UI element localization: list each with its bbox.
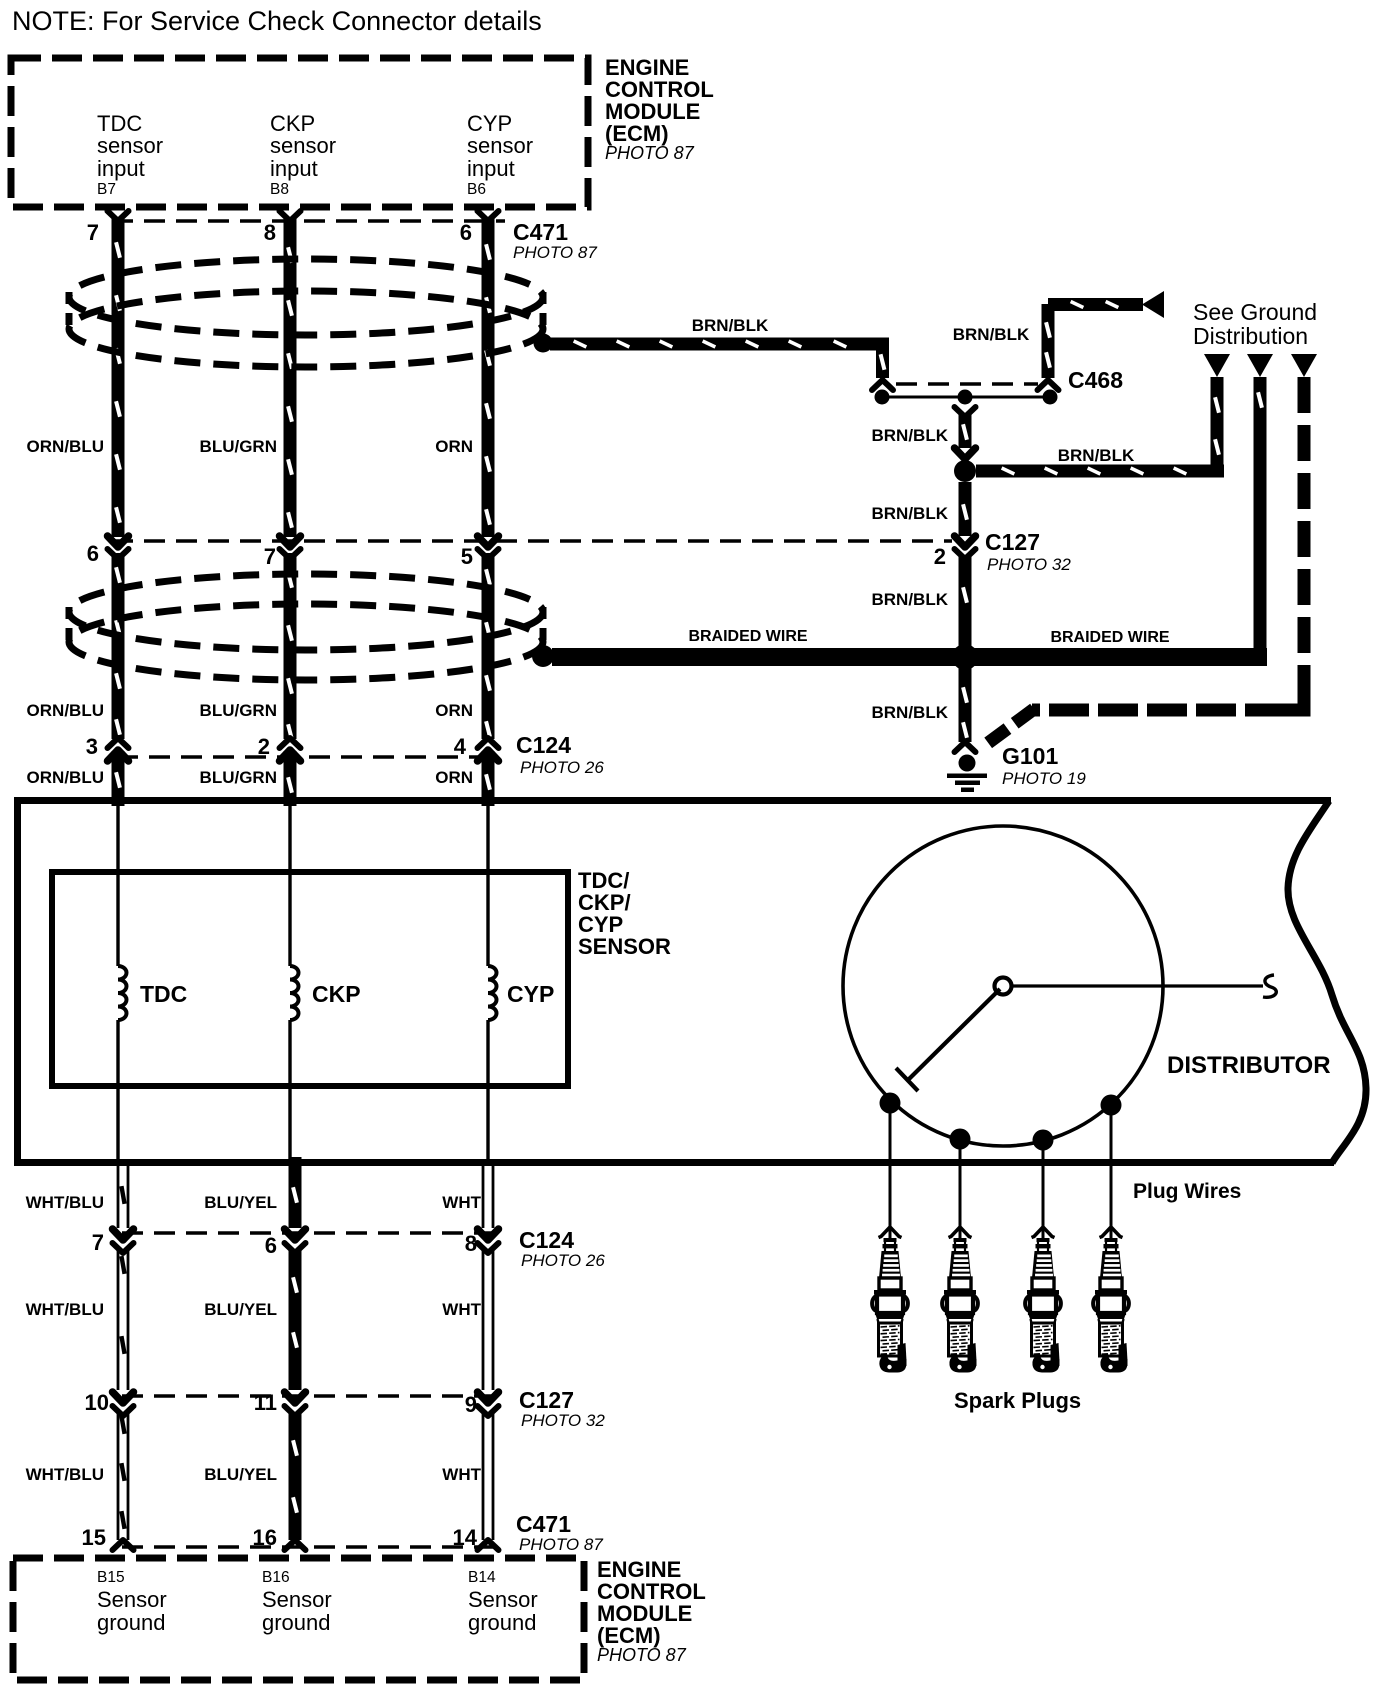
coil TDC xyxy=(118,966,127,1020)
svg-text:6: 6 xyxy=(265,1233,277,1258)
connector C127 (bottom) dashed line xyxy=(122,1394,505,1398)
svg-text:B6: B6 xyxy=(467,181,486,198)
svg-text:8: 8 xyxy=(264,220,276,245)
svg-text:PHOTO 32: PHOTO 32 xyxy=(521,1411,605,1430)
connector C127 label (bottom) xyxy=(519,1387,605,1430)
svg-text:Plug Wires: Plug Wires xyxy=(1133,1180,1241,1203)
ground distribution arrow 1 xyxy=(1204,354,1230,377)
connector C471 label (bottom) xyxy=(516,1511,603,1554)
connector C127 pin (arrow + fork) xyxy=(478,1392,499,1416)
braided wire (shield drain) xyxy=(552,648,1267,666)
off-page arrow (to ground distribution) xyxy=(1142,291,1164,318)
connector C471 (top) dashed line xyxy=(112,219,505,223)
svg-text:BRN/BLK: BRN/BLK xyxy=(1058,446,1135,465)
connector C471 pin fork xyxy=(108,211,129,221)
ground distribution wire 3 (dashed) xyxy=(1298,377,1311,703)
svg-text:7: 7 xyxy=(92,1230,104,1255)
svg-text:WHT: WHT xyxy=(442,1465,481,1484)
svg-text:input: input xyxy=(97,156,145,181)
shield (lower) around sensor wires xyxy=(69,574,554,680)
svg-text:Sensor: Sensor xyxy=(97,1587,167,1612)
ECM connector box (bottom) xyxy=(13,1558,584,1680)
wire CYP sensor input (thick) xyxy=(482,218,495,806)
plug wire 1 xyxy=(889,1103,892,1228)
svg-text:ORN/BLU: ORN/BLU xyxy=(27,768,104,787)
svg-text:BLU/YEL: BLU/YEL xyxy=(204,1300,277,1319)
svg-text:sensor: sensor xyxy=(467,133,533,158)
sensor box label xyxy=(578,868,671,959)
rotor contact hook xyxy=(1263,975,1276,997)
sensor box TDC/CKP/CYP xyxy=(52,872,568,1086)
svg-text:PHOTO 26: PHOTO 26 xyxy=(520,758,604,777)
svg-text:ground: ground xyxy=(262,1610,331,1635)
coil CYP xyxy=(488,966,497,1020)
wire WHT/BLU (sensor ground TDC) xyxy=(118,1166,128,1540)
svg-text:C124: C124 xyxy=(516,732,571,758)
connector pin (arrow + fork) xyxy=(108,536,129,559)
svg-text:WHT/BLU: WHT/BLU xyxy=(26,1465,104,1484)
rotor arm xyxy=(908,989,1000,1080)
connector C124 pin (arrow + fork) xyxy=(285,1229,306,1253)
label See Ground Distribution xyxy=(1193,299,1317,349)
svg-text:ground: ground xyxy=(97,1610,166,1635)
ground distribution arrow 2 xyxy=(1247,354,1273,377)
ECM pin label CYP sensor input B6 xyxy=(467,111,533,198)
svg-text:5: 5 xyxy=(461,544,473,569)
plug wire 2 xyxy=(959,1139,962,1228)
svg-text:14: 14 xyxy=(453,1525,478,1550)
connector pin (arrow + fork) xyxy=(280,536,301,559)
svg-text:4: 4 xyxy=(454,734,467,759)
svg-text:PHOTO 87: PHOTO 87 xyxy=(597,1645,687,1665)
ECM title (bottom) xyxy=(597,1557,706,1665)
ground distribution arrow 3 xyxy=(1291,354,1317,377)
svg-text:15: 15 xyxy=(82,1525,106,1550)
ground distribution wire 2 xyxy=(1254,377,1267,666)
svg-text:PHOTO 87: PHOTO 87 xyxy=(513,243,597,262)
svg-text:input: input xyxy=(270,156,318,181)
connector C124 (bottom) dashed line xyxy=(122,1231,505,1235)
svg-text:CKP: CKP xyxy=(312,981,361,1007)
wire WHT (sensor ground CYP) xyxy=(483,1166,493,1540)
svg-text:BLU/GRN: BLU/GRN xyxy=(200,437,277,456)
spark plug 3 xyxy=(1025,1227,1061,1373)
distributor cap contact 1 xyxy=(880,1093,901,1114)
ECM pin label TDC sensor input B7 xyxy=(97,111,163,198)
connector dashed line (row 6-7-5, to C127 pin 2) xyxy=(112,539,952,543)
svg-text:TDC: TDC xyxy=(140,981,187,1007)
svg-text:C471: C471 xyxy=(516,1511,571,1537)
svg-text:WHT/BLU: WHT/BLU xyxy=(26,1300,104,1319)
svg-text:11: 11 xyxy=(254,1390,277,1415)
svg-text:B14: B14 xyxy=(468,1569,496,1586)
svg-text:BRN/BLK: BRN/BLK xyxy=(692,316,769,335)
distributor housing box xyxy=(14,797,1366,1166)
svg-text:SENSOR: SENSOR xyxy=(578,934,671,959)
shield (upper) around sensor wires xyxy=(69,259,553,367)
distributor cap contact 3 xyxy=(1033,1130,1054,1151)
svg-text:B8: B8 xyxy=(270,181,289,198)
svg-text:BRN/BLK: BRN/BLK xyxy=(953,325,1030,344)
connector C124 label xyxy=(516,732,604,777)
plug wire 4 xyxy=(1110,1105,1113,1228)
rotor arm tip bar xyxy=(896,1068,918,1091)
svg-text:BLU/GRN: BLU/GRN xyxy=(200,768,277,787)
svg-text:7: 7 xyxy=(264,544,276,569)
ECM pin label B14 Sensor ground xyxy=(468,1569,538,1635)
svg-text:PHOTO 32: PHOTO 32 xyxy=(987,555,1071,574)
svg-text:BLU/YEL: BLU/YEL xyxy=(204,1193,277,1212)
connector C124 pin (arrow + fork) xyxy=(113,1229,134,1253)
svg-text:DISTRIBUTOR: DISTRIBUTOR xyxy=(1167,1052,1331,1079)
connector C471 pin fork xyxy=(478,1540,499,1550)
connector C471 pin fork xyxy=(478,211,499,221)
svg-text:Sensor: Sensor xyxy=(262,1587,332,1612)
svg-text:ORN: ORN xyxy=(435,768,473,787)
svg-text:BRAIDED WIRE: BRAIDED WIRE xyxy=(1050,629,1169,646)
svg-text:BLU/YEL: BLU/YEL xyxy=(204,1465,277,1484)
wire BLU/YEL (sensor ground CKP, thick) xyxy=(289,1157,302,1540)
rotor pivot xyxy=(995,978,1012,995)
svg-text:WHT/BLU: WHT/BLU xyxy=(26,1193,104,1212)
coil CKP xyxy=(290,966,299,1020)
svg-text:PHOTO 87: PHOTO 87 xyxy=(605,143,695,163)
connector C468 fork (left) xyxy=(872,380,893,390)
ground G101 label xyxy=(1002,743,1086,788)
svg-text:Distribution: Distribution xyxy=(1193,323,1308,349)
svg-text:7: 7 xyxy=(87,220,99,245)
svg-text:See Ground: See Ground xyxy=(1193,299,1317,325)
svg-text:BLU/GRN: BLU/GRN xyxy=(200,701,277,720)
svg-text:8: 8 xyxy=(465,1231,477,1256)
svg-text:WHT: WHT xyxy=(442,1193,481,1212)
svg-text:BRN/BLK: BRN/BLK xyxy=(872,703,949,722)
wire TDC (thin, inside sensor) xyxy=(116,804,119,1163)
connector C468 fork (right) xyxy=(1038,380,1059,390)
svg-text:C124: C124 xyxy=(519,1227,574,1253)
svg-text:Spark Plugs: Spark Plugs xyxy=(954,1388,1081,1413)
connector C471 label xyxy=(513,219,597,262)
svg-text:2: 2 xyxy=(934,544,946,569)
svg-text:C468: C468 xyxy=(1068,367,1123,393)
svg-text:2: 2 xyxy=(258,734,270,759)
connector C127 pin (arrow + fork) xyxy=(113,1392,134,1416)
svg-text:BRN/BLK: BRN/BLK xyxy=(872,426,949,445)
junction dot (braided wire) xyxy=(952,644,978,670)
junction dot xyxy=(954,460,976,482)
svg-text:Sensor: Sensor xyxy=(468,1587,538,1612)
svg-text:PHOTO 19: PHOTO 19 xyxy=(1002,769,1086,788)
distributor cap contact 4 xyxy=(1101,1095,1122,1116)
svg-text:BRN/BLK: BRN/BLK xyxy=(872,504,949,523)
svg-text:C127: C127 xyxy=(519,1387,574,1413)
connector C471 (bottom) dashed line xyxy=(122,1545,505,1549)
svg-text:9: 9 xyxy=(465,1392,477,1417)
wire BRN/BLK from shield to C468 (horizontal) xyxy=(550,338,889,379)
connector C124 label (bottom) xyxy=(519,1227,605,1270)
svg-text:ORN: ORN xyxy=(435,701,473,720)
svg-text:ground: ground xyxy=(468,1610,537,1635)
svg-text:ORN: ORN xyxy=(435,437,473,456)
svg-text:G101: G101 xyxy=(1002,743,1058,769)
dashed wire corner to G101 xyxy=(1285,690,1304,710)
wire BRN/BLK vertical (C468 to G101) xyxy=(955,407,976,752)
svg-text:BRAIDED WIRE: BRAIDED WIRE xyxy=(688,628,807,645)
ground distribution wire 1 xyxy=(1211,377,1224,477)
svg-text:6: 6 xyxy=(87,541,99,566)
wire CYP (thin, inside sensor) xyxy=(486,804,489,1163)
spark plug 1 xyxy=(872,1227,908,1373)
connector C124 pin (fork + arrow) xyxy=(280,738,301,761)
svg-text:sensor: sensor xyxy=(97,133,163,158)
ECM pin label B16 Sensor ground xyxy=(262,1569,332,1635)
distributor body circle xyxy=(843,826,1163,1146)
connector C124 pin (fork + arrow) xyxy=(478,738,499,761)
connector C471 pin fork xyxy=(113,1540,134,1550)
ECM title (top) xyxy=(605,55,714,163)
connector C127 label xyxy=(985,529,1071,574)
svg-text:CYP: CYP xyxy=(507,981,554,1007)
connector C124 pin (fork + arrow) xyxy=(108,738,129,761)
wire CKP (thin, inside sensor) xyxy=(288,804,291,1163)
wire CKP sensor input (thick) xyxy=(284,218,297,806)
svg-text:C471: C471 xyxy=(513,219,568,245)
svg-text:NOTE: For Service Check Connec: NOTE: For Service Check Connector detail… xyxy=(12,6,542,36)
svg-text:B7: B7 xyxy=(97,181,116,198)
wire BRN/BLK up to ground distribution arrow xyxy=(1042,298,1144,378)
spark plug 4 xyxy=(1093,1227,1129,1373)
svg-text:input: input xyxy=(467,156,515,181)
distributor cap contact 2 xyxy=(950,1129,971,1150)
svg-text:BRN/BLK: BRN/BLK xyxy=(872,590,949,609)
svg-text:C127: C127 xyxy=(985,529,1040,555)
svg-text:16: 16 xyxy=(253,1525,277,1550)
rotor contact line xyxy=(1012,984,1263,987)
connector C124 dashed line xyxy=(117,755,500,759)
ECM pin label CKP sensor input B8 xyxy=(270,111,336,198)
connector C471 pin fork xyxy=(280,211,301,221)
wire BRN/BLK junction to ground-distribution wire 1 xyxy=(976,465,1224,478)
connector pin (arrow + fork) xyxy=(478,536,499,559)
plug wire 3 xyxy=(1042,1140,1045,1228)
svg-text:sensor: sensor xyxy=(270,133,336,158)
spark plug 2 xyxy=(942,1227,978,1373)
connector C127 pin (arrow + fork) xyxy=(285,1392,306,1416)
svg-text:B15: B15 xyxy=(97,1569,125,1586)
svg-text:ORN/BLU: ORN/BLU xyxy=(27,437,104,456)
svg-text:3: 3 xyxy=(86,734,98,759)
svg-text:6: 6 xyxy=(460,220,472,245)
svg-text:WHT: WHT xyxy=(442,1300,481,1319)
wire TDC sensor input (thick) xyxy=(112,218,125,806)
ground G101 symbol xyxy=(947,755,987,793)
svg-text:ORN/BLU: ORN/BLU xyxy=(27,701,104,720)
svg-text:B16: B16 xyxy=(262,1569,290,1586)
connector C124 pin (arrow + fork) xyxy=(478,1229,499,1253)
connector C471 pin fork xyxy=(285,1540,306,1550)
svg-text:PHOTO 87: PHOTO 87 xyxy=(519,1535,603,1554)
svg-text:PHOTO 26: PHOTO 26 xyxy=(521,1251,605,1270)
svg-text:10: 10 xyxy=(85,1390,109,1415)
ECM connector box (top) xyxy=(11,58,588,207)
ECM pin label B15 Sensor ground xyxy=(97,1569,167,1635)
connector C468 xyxy=(875,384,1058,405)
